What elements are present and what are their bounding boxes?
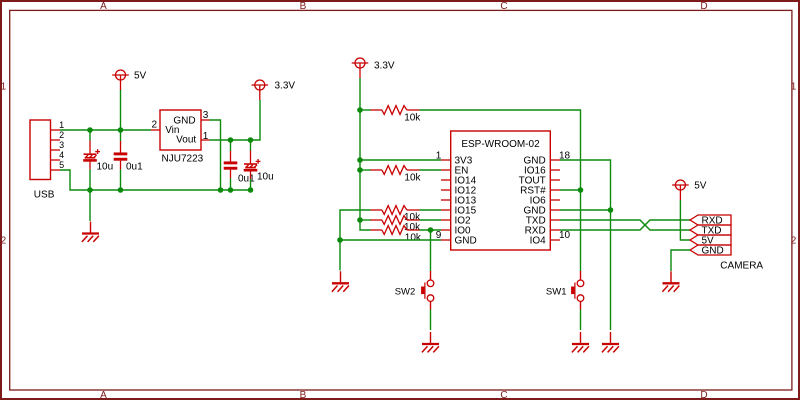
wire IO15 branch left xyxy=(340,210,371,240)
svg-text:SW1: SW1 xyxy=(546,287,567,298)
wire ESP RXD crossover to camera TXD xyxy=(560,220,690,230)
supply 5V (left) xyxy=(112,70,146,90)
connector USB xyxy=(30,120,60,180)
wire SW2 to ground xyxy=(430,310,432,331)
svg-text:1: 1 xyxy=(791,81,797,92)
ESP pin names left xyxy=(455,156,477,247)
svg-text:NJU7223: NJU7223 xyxy=(162,153,204,164)
svg-text:1: 1 xyxy=(1,81,7,92)
junction at (90,130) xyxy=(87,127,93,133)
capacitor 0u1 (input) xyxy=(114,130,128,190)
wire IO0 to SW2 xyxy=(430,230,432,271)
svg-text:A: A xyxy=(100,1,107,12)
ESP pin names right xyxy=(519,156,546,247)
wire ESP TXD crossover to camera RXD xyxy=(560,220,690,230)
resistor 10k (EN pull-up) xyxy=(371,166,422,184)
supply 3.3V (regulator output) xyxy=(252,80,296,100)
wire 3.3V rail vertical xyxy=(360,78,371,230)
junction GND net at (610,210) xyxy=(608,207,614,213)
junction 3.3V rail at y=170 xyxy=(357,167,363,173)
svg-text:1: 1 xyxy=(436,151,442,162)
wire NJU7223.GND to GND rail xyxy=(210,120,221,190)
svg-text:5V: 5V xyxy=(694,181,707,192)
wire RST pull-up to RST# net xyxy=(420,110,581,271)
svg-text:SW2: SW2 xyxy=(395,287,416,298)
ground (below USB rail) xyxy=(82,222,99,242)
wire 5V supply to node xyxy=(120,90,122,130)
junction at (120,130) xyxy=(118,127,124,133)
regulator U1 NJU7223 xyxy=(151,110,210,150)
wire IO0 resistor to pin xyxy=(420,229,442,231)
junction GND rail x=90 xyxy=(87,187,93,193)
wire ESP RST# to SW1 net xyxy=(560,189,581,191)
svg-text:CAMERA: CAMERA xyxy=(720,260,763,271)
svg-text:ESP-WROOM-02: ESP-WROOM-02 xyxy=(461,139,540,150)
supply 5V (camera) xyxy=(672,180,707,200)
capacitor 10u (input, polarized) xyxy=(83,130,100,190)
wire to ground (IO15 pull-down) xyxy=(339,240,341,271)
svg-text:10k: 10k xyxy=(404,173,421,184)
switch SW1 xyxy=(546,271,584,310)
wire 3V3 pin to rail xyxy=(360,159,441,161)
svg-text:0u1: 0u1 xyxy=(126,162,143,173)
svg-text:GND: GND xyxy=(702,246,724,257)
junction at (250,140) xyxy=(248,137,254,143)
junction IO0 at (430,230) xyxy=(428,227,434,233)
svg-text:10k: 10k xyxy=(404,222,421,233)
junction GND rail x=250 xyxy=(248,187,254,193)
svg-text:A: A xyxy=(100,390,107,400)
svg-text:10k: 10k xyxy=(404,113,421,124)
junction at (230,140) xyxy=(228,137,234,143)
svg-text:5V: 5V xyxy=(134,70,147,81)
svg-text:0u1: 0u1 xyxy=(238,174,255,185)
supply 3.3V (ESP) xyxy=(352,58,395,78)
resistor 10k (RST pull-up) xyxy=(371,106,422,124)
svg-text:D: D xyxy=(700,390,707,400)
svg-text:3: 3 xyxy=(59,140,64,150)
svg-text:10: 10 xyxy=(559,230,571,241)
svg-text:10u: 10u xyxy=(97,162,114,173)
capacitor 0u1 (output) xyxy=(224,140,238,190)
wire 5V supply to camera 5V pin xyxy=(680,200,690,240)
svg-text:10k: 10k xyxy=(405,233,422,244)
ground (GND net) xyxy=(602,332,619,352)
connector CAMERA flags xyxy=(690,215,731,255)
resistor 10k (IO15 pull-down) xyxy=(371,206,422,224)
svg-text:3.3V: 3.3V xyxy=(275,81,296,92)
svg-text:1: 1 xyxy=(203,131,209,142)
svg-text:USB: USB xyxy=(34,190,55,201)
ground (SW2) xyxy=(422,332,439,352)
junction 3.3V rail at y=160 xyxy=(357,157,363,163)
wire EN resistor to pin xyxy=(420,169,442,171)
svg-text:B: B xyxy=(300,1,307,12)
junction RST# at (580,190) xyxy=(578,187,584,193)
svg-text:3.3V: 3.3V xyxy=(374,61,395,72)
junction GND rail x=220 xyxy=(218,187,224,193)
wire camera GND to ground xyxy=(671,250,690,271)
junction GND rail x=120 xyxy=(118,187,124,193)
svg-text:5: 5 xyxy=(59,160,64,170)
wire ESP GND18 to ground net xyxy=(560,160,611,330)
wire USB.1 to NJU7223.Vin (5V net) xyxy=(60,129,151,131)
svg-text:D: D xyxy=(700,1,707,12)
USB pin numbers 1-5 xyxy=(59,120,64,170)
svg-text:2: 2 xyxy=(59,130,64,140)
ground (SW1) xyxy=(572,332,589,352)
wire USB.5 to GND rail xyxy=(60,170,250,190)
wire SW1 to ground xyxy=(580,310,582,331)
svg-text:1: 1 xyxy=(59,120,64,130)
svg-text:C: C xyxy=(500,390,507,400)
wire 3.3V to RST pull-up xyxy=(360,109,371,111)
svg-text:4: 4 xyxy=(59,150,64,160)
svg-text:GND: GND xyxy=(455,236,477,247)
junction GND rail at (340,240) xyxy=(337,237,343,243)
junction GND rail x=230 xyxy=(228,187,234,193)
svg-text:C: C xyxy=(500,1,507,12)
wire IO2 resistor to pin xyxy=(420,219,442,221)
wire IO2 branch xyxy=(360,219,371,221)
wire GND rail down to ground xyxy=(89,190,91,221)
svg-text:3: 3 xyxy=(203,110,209,121)
wire IO15 resistor to pin xyxy=(420,209,442,211)
wire NJU7223.Vout (3.3V net) xyxy=(210,100,261,140)
svg-text:9: 9 xyxy=(436,230,442,241)
junction 3.3V rail at y=110 xyxy=(357,107,363,113)
svg-text:2: 2 xyxy=(1,235,7,246)
svg-text:B: B xyxy=(300,390,307,400)
wire ESP GND(210) to gnd vertical xyxy=(560,209,611,211)
IC U2 ESP-WROOM-02 xyxy=(441,131,560,250)
switch SW2 xyxy=(395,271,434,310)
ground (camera) xyxy=(662,271,679,291)
svg-text:IO4: IO4 xyxy=(530,236,547,247)
resistor 10k (IO0 pull-up) xyxy=(371,226,422,244)
svg-text:2: 2 xyxy=(151,120,157,131)
svg-text:10u: 10u xyxy=(257,172,274,183)
resistor 10k (IO2 pull-up) xyxy=(371,216,422,233)
capacitor 10u (output, polarized) xyxy=(244,140,261,190)
wire EN branch xyxy=(360,169,371,171)
wire GND rail to ESP GND pin xyxy=(340,239,441,241)
junction 3.3V rail at y=220 xyxy=(357,217,363,223)
svg-text:Vout: Vout xyxy=(176,135,196,146)
ground (IO15 pull-down) xyxy=(332,271,349,291)
svg-text:2: 2 xyxy=(791,235,797,246)
